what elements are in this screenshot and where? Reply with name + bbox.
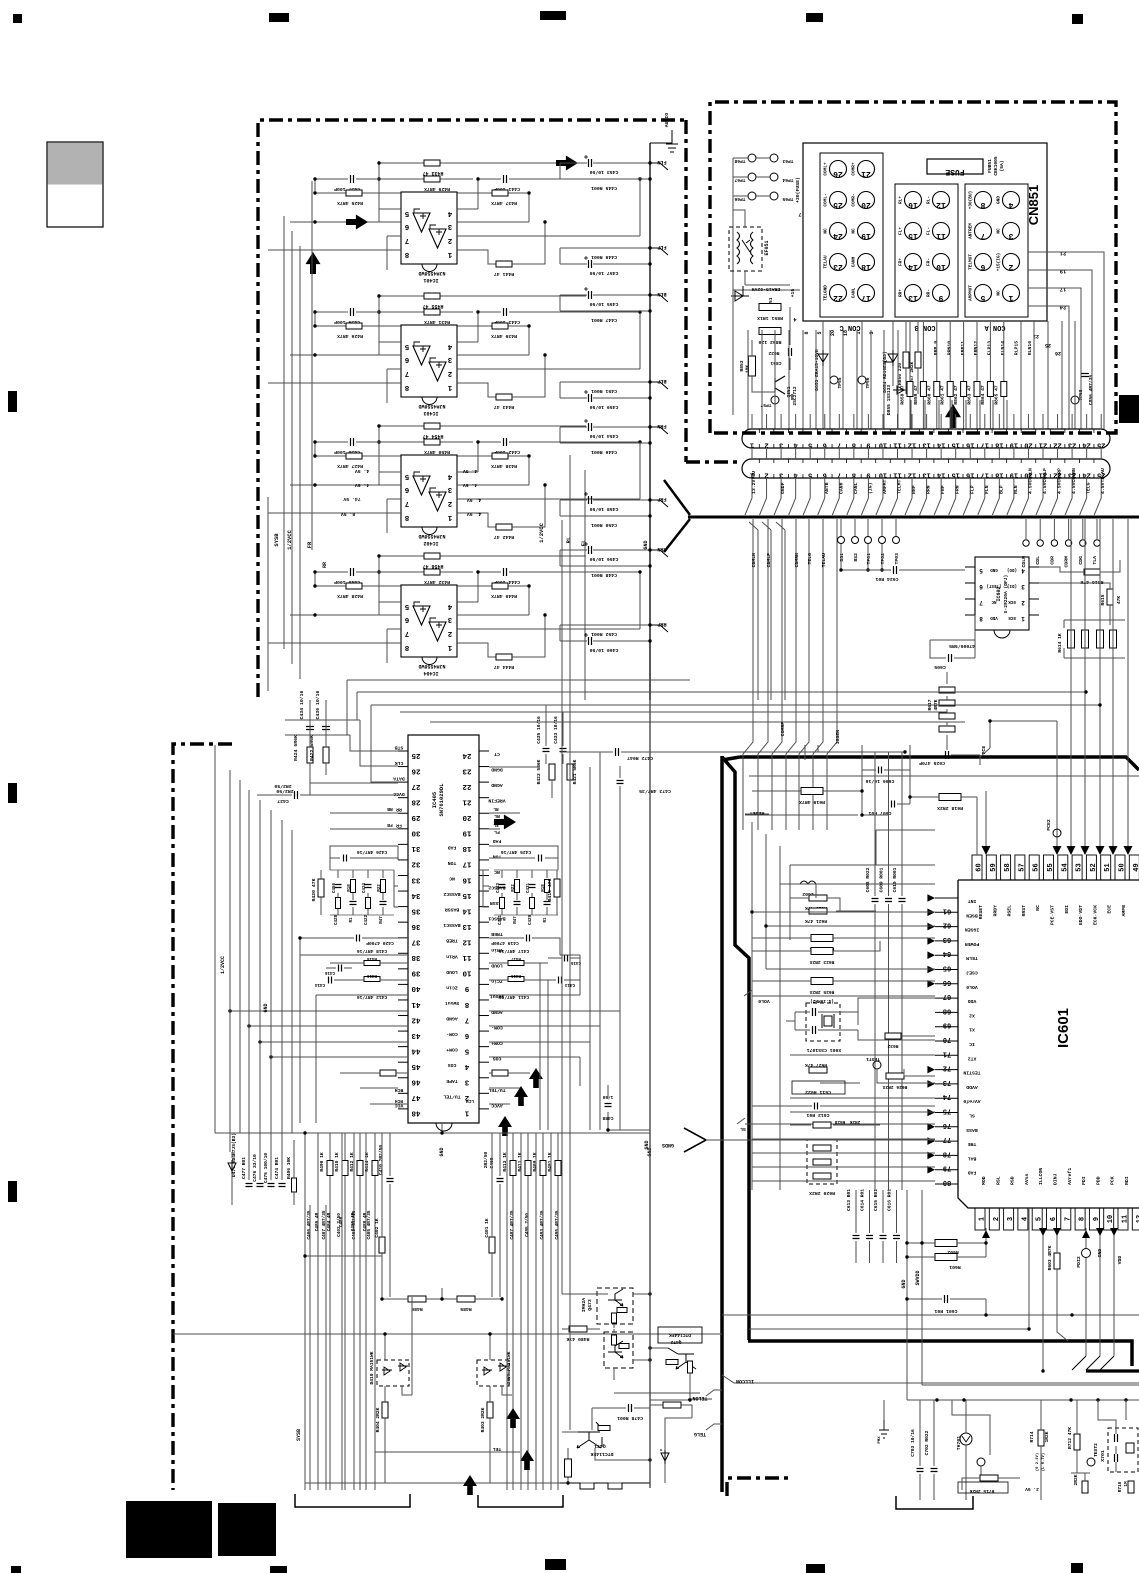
svg-text:45: 45	[411, 1062, 421, 1070]
svg-text:5: 5	[808, 441, 812, 449]
IC601 pin 78	[935, 1154, 958, 1156]
capacitor C441	[504, 175, 507, 183]
diode D854 RD16ES(B3)	[883, 350, 898, 366]
resistor R626 2R2X	[886, 1073, 904, 1079]
svg-text:R418: R418	[366, 956, 377, 960]
resistor R621 47K	[809, 908, 827, 914]
svg-text:RSD: RSD	[1010, 1176, 1016, 1185]
svg-text:TELG: TELG	[807, 553, 813, 565]
IC405 pin 31	[398, 843, 408, 845]
IC405 pin 10	[479, 968, 489, 970]
fiducial mark bottom 3	[806, 1564, 825, 1573]
capacitor C440	[351, 568, 354, 576]
resistor bottom-left of Q471	[565, 1459, 572, 1477]
svg-text:C450 R001: C450 R001	[591, 522, 617, 528]
svg-text:7: 7	[798, 211, 801, 218]
svg-text:4. 5V: 4. 5V	[467, 511, 482, 517]
svg-text:CDMLN: CDMLN	[751, 553, 757, 568]
svg-text:C456 10/50: C456 10/50	[589, 556, 618, 562]
svg-text:EDO·VDT: EDO·VDT	[1078, 905, 1084, 925]
svg-text:38: 38	[411, 953, 421, 961]
svg-text:C605: C605	[934, 664, 946, 670]
IC601 pin 66	[935, 983, 958, 985]
IC602 pin 3	[1029, 582, 1039, 584]
wires between rows	[745, 414, 752, 515]
IC405 pin 27	[398, 781, 408, 783]
op-amp triangle A IC403	[413, 346, 430, 365]
fuse FUB51	[927, 159, 983, 174]
svg-text:R441 47: R441 47	[494, 271, 514, 277]
capacitor C414	[329, 977, 332, 984]
IC405 pin 2	[479, 1092, 489, 1094]
IC601 pin 69	[935, 1026, 958, 1028]
svg-text:VDD: VDD	[968, 998, 977, 1004]
terminal TEST2	[1087, 1458, 1095, 1466]
wire R618 to pin60	[985, 791, 987, 848]
left vertical bus wires in audio block	[268, 181, 312, 691]
svg-text:4.5VCOMRP: 4.5VCOMRP	[1057, 468, 1063, 494]
svg-text:R858 47: R858 47	[900, 385, 906, 405]
op-amp triangle A IC402	[413, 476, 430, 495]
svg-text:COML-: COML-	[824, 193, 829, 206]
svg-text:RRDY: RRDY	[992, 905, 998, 917]
thick bus C	[722, 757, 1132, 1366]
svg-text:CDR: CDR	[1049, 556, 1055, 565]
svg-text:20: 20	[462, 813, 472, 821]
svg-text:47: 47	[411, 1093, 420, 1101]
fiducial mark top-left	[13, 14, 22, 23]
svg-text:78: 78	[943, 1149, 951, 1157]
svg-text:64: 64	[943, 949, 951, 957]
photo black block 1	[126, 1501, 212, 1558]
svg-text:FLP: FLP	[657, 244, 666, 250]
IC405 pin 44	[398, 1046, 408, 1048]
svg-text:NC: NC	[997, 228, 1002, 234]
wires R628 block	[752, 1125, 935, 1181]
svg-text:30: 30	[411, 829, 421, 837]
svg-text:18: 18	[995, 471, 1003, 479]
svg-text:TP66: TP66	[734, 196, 745, 202]
capacitor C478 R001	[629, 1404, 632, 1412]
svg-text:6: 6	[404, 615, 409, 623]
svg-text:9: 9	[866, 471, 870, 479]
svg-text:NC: NC	[997, 290, 1002, 296]
fiducial mark top 2	[540, 11, 566, 20]
resistor R603 4R7K	[1054, 1253, 1060, 1269]
svg-text:3: 3	[869, 331, 875, 334]
IC601 pin 73	[935, 1083, 958, 1085]
svg-text:5: 5	[817, 331, 823, 334]
svg-text:RR+: RR+	[899, 289, 904, 297]
svg-text:R486: R486	[411, 1306, 423, 1312]
svg-text:NC: NC	[449, 875, 455, 881]
svg-text:BASSC1: BASSC1	[443, 922, 460, 928]
svg-text:4: 4	[447, 472, 452, 480]
contact CON C pin 26	[830, 161, 847, 178]
svg-text:R424 5R6K: R424 5R6K	[293, 735, 299, 761]
svg-text:RRP: RRP	[911, 485, 917, 494]
svg-text:8: 8	[852, 441, 856, 449]
svg-text:8: 8	[1079, 1217, 1087, 1221]
svg-text:66: 66	[943, 978, 951, 986]
svg-text:ZCin: ZCin	[491, 978, 503, 984]
resistor R440 4R7X	[457, 586, 529, 615]
svg-text:BLP: BLP	[657, 378, 666, 384]
capacitor C444	[504, 568, 507, 576]
svg-text:X601 CSS1071: X601 CSS1071	[807, 1047, 842, 1053]
contact CON B pin 11	[933, 223, 950, 240]
contact CON C pin 23	[830, 254, 847, 271]
svg-text:R433 47: R433 47	[422, 170, 443, 176]
svg-text:3: 3	[447, 485, 452, 493]
IC601 pin 4	[1018, 1208, 1028, 1230]
net tab FRP	[650, 500, 668, 507]
svg-text:C433 10/16: C433 10/16	[553, 716, 559, 744]
svg-text:NC: NC	[852, 228, 857, 234]
svg-text:FLP13: FLP13	[987, 341, 993, 356]
svg-text:AGND: AGND	[491, 1009, 503, 1015]
svg-text:SWVDD: SWVDD	[915, 1270, 921, 1285]
IC405 pin 35	[398, 906, 408, 908]
IC602 pin 8	[965, 614, 975, 616]
svg-text:C703 10/16: C703 10/16	[910, 1429, 916, 1457]
svg-text:GND: GND	[1097, 1249, 1103, 1258]
test point TP57	[771, 396, 779, 404]
svg-text:TAPE: TAPE	[446, 1078, 458, 1084]
svg-text:12: 12	[908, 471, 916, 479]
svg-text:23: 23	[462, 766, 472, 774]
op-amp IC401 body	[401, 192, 457, 264]
svg-text:PCE2: PCE2	[1046, 819, 1052, 831]
svg-text:PDI: PDI	[1081, 1176, 1087, 1185]
IC405 pin 42	[398, 1015, 408, 1017]
svg-text:R420 47K: R420 47K	[311, 878, 317, 901]
svg-text:8: 8	[852, 471, 856, 479]
svg-text:5: 5	[1036, 1217, 1044, 1221]
svg-text:DVCC: DVCC	[393, 791, 405, 797]
svg-text:C478 R001: C478 R001	[617, 1415, 643, 1421]
svg-text:C448 R001: C448 R001	[591, 572, 617, 578]
IC405 pin 16	[479, 874, 489, 876]
resistor R424 5R6K	[307, 747, 313, 763]
wire y1385	[922, 1384, 1139, 1386]
svg-text:R627 47K: R627 47K	[805, 1062, 827, 1068]
wires IC405 right to nets	[540, 752, 620, 1130]
IC405 pin 39	[398, 968, 408, 970]
IC405 pin 33	[398, 874, 408, 876]
svg-text:R442 47: R442 47	[494, 534, 514, 540]
wire horizontal bottom-left	[173, 1256, 722, 1483]
IC601 pin 54	[1058, 855, 1068, 880]
svg-text:FAD: FAD	[493, 838, 502, 844]
svg-text:3: 3	[464, 1078, 469, 1086]
svg-text:11: 11	[1122, 1215, 1130, 1223]
svg-text:26: 26	[411, 766, 421, 774]
svg-text:AVref1: AVref1	[1067, 1168, 1073, 1185]
svg-text:3: 3	[779, 441, 783, 449]
fiducial mark bottom 2	[545, 1559, 566, 1570]
svg-text:CANH: CANH	[838, 482, 844, 494]
svg-text:2SC2712: 2SC2712	[792, 386, 798, 406]
svg-text:75: 75	[943, 1107, 951, 1115]
svg-text:10: 10	[879, 441, 887, 449]
svg-text:BASSC1: BASSC1	[488, 916, 505, 922]
svg-text:R022: R022	[768, 350, 779, 356]
contact CON B pin 15	[905, 223, 922, 240]
contact CON A pin 7	[975, 223, 992, 240]
svg-text:TELM: TELM	[966, 955, 978, 961]
IC405 pin 15	[479, 890, 489, 892]
IC602 pin 5	[965, 566, 975, 568]
IC405 pin 6	[479, 1030, 489, 1032]
svg-text:R432 4R7X: R432 4R7X	[424, 579, 450, 585]
svg-text:6: 6	[1050, 1217, 1058, 1221]
IC601 pin 60	[972, 855, 982, 880]
svg-text:C425 4R7/16: C425 4R7/16	[501, 849, 532, 855]
svg-text:(5A): (5A)	[999, 160, 1005, 171]
resistor column R617 4R7K	[939, 687, 955, 693]
resistor R444 47	[496, 654, 512, 660]
svg-text:8: 8	[464, 1000, 469, 1008]
IC405 pin 22	[479, 781, 489, 783]
output network FRN	[560, 426, 650, 428]
arrow up IC401	[306, 252, 321, 274]
inductor L602	[800, 881, 816, 884]
svg-text:55: 55	[1047, 863, 1055, 871]
svg-text:4: 4	[1008, 200, 1013, 209]
svg-text:FL: FL	[493, 822, 499, 827]
svg-text:7: 7	[980, 231, 985, 240]
capacitor C443	[504, 308, 507, 316]
svg-text:IC601: IC601	[1055, 1008, 1072, 1048]
svg-text:CDMRN: CDMRN	[794, 553, 800, 568]
svg-text:8: 8	[404, 643, 409, 651]
svg-text:C436 10/16: C436 10/16	[315, 690, 321, 719]
svg-text:CDG: CDG	[1078, 556, 1084, 565]
svg-text:24: 24	[833, 231, 843, 240]
svg-text:19: 19	[1060, 268, 1067, 275]
svg-text:C402 1K: C402 1K	[374, 1218, 380, 1238]
svg-text:C453 10/50: C453 10/50	[589, 169, 618, 175]
svg-text:5: 5	[404, 209, 409, 217]
capacitor C439	[351, 308, 354, 316]
svg-text:R431 4R7X: R431 4R7X	[424, 319, 450, 325]
svg-text:17: 17	[861, 293, 871, 302]
wires C435 cluster	[489, 705, 905, 798]
svg-text:RRST: RRST	[1021, 905, 1027, 917]
svg-text:FAD: FAD	[968, 1170, 977, 1176]
svg-text:10: 10	[936, 262, 946, 271]
resistor R861 47	[947, 382, 953, 397]
wire feedback IC401	[379, 162, 586, 164]
svg-text:+15(IG): +15(IG)	[997, 253, 1002, 271]
svg-text:ECE: ECE	[1107, 905, 1113, 914]
svg-text:XT2: XT2	[968, 1055, 977, 1061]
svg-text:D853 ERA15-10VH: D853 ERA15-10VH	[814, 349, 820, 391]
svg-text:RL: RL	[493, 806, 499, 811]
wire PCE line	[980, 721, 1057, 848]
IC601 pin 8	[1075, 1208, 1085, 1230]
svg-text:8: 8	[404, 513, 409, 521]
svg-text:TREB: TREB	[491, 931, 503, 937]
svg-text:25: 25	[833, 200, 843, 209]
resistor R423 5R6K	[549, 764, 555, 780]
thick bus B	[722, 756, 1139, 1492]
svg-text:35: 35	[411, 906, 421, 914]
svg-text:COM-: COM-	[446, 1031, 458, 1037]
arrow up TEL 1	[506, 1408, 520, 1428]
svg-text:R22: R22	[512, 884, 516, 892]
svg-text:R853: R853	[739, 360, 745, 371]
contact CON B pin 14	[905, 254, 922, 271]
svg-text:7: 7	[837, 441, 841, 449]
svg-text:D410 MA151WK: D410 MA151WK	[369, 1351, 375, 1384]
svg-text:12: 12	[936, 200, 946, 209]
contact CON A pin 5	[975, 285, 992, 302]
signal labels CDMLN group	[743, 519, 753, 830]
svg-text:6: 6	[823, 471, 827, 479]
capacitor C611 R022	[792, 1081, 845, 1094]
svg-text:FRN: FRN	[657, 423, 666, 429]
svg-text:C473 4R7/35: C473 4R7/35	[639, 788, 671, 794]
svg-text:R456 47: R456 47	[422, 563, 443, 569]
test point TP58	[1071, 396, 1079, 404]
svg-text:63: 63	[943, 935, 951, 943]
svg-text:13: 13	[922, 441, 930, 449]
svg-text:R865 47: R865 47	[993, 385, 999, 405]
IC601 pin 50	[1115, 855, 1125, 880]
svg-text:R443 47: R443 47	[494, 404, 514, 410]
wire right vertical IC402	[639, 442, 641, 499]
svg-text:19: 19	[861, 231, 871, 240]
svg-text:R619 4R7X: R619 4R7X	[799, 799, 825, 805]
svg-text:C614 R01: C614 R01	[860, 1189, 866, 1211]
wire right vertical IC404	[639, 572, 641, 629]
svg-text:CANH: CANH	[852, 256, 857, 267]
svg-text:24: 24	[462, 751, 472, 759]
svg-text:32: 32	[411, 860, 421, 868]
contact CON C pin 25	[830, 192, 847, 209]
bracket bottom-right	[896, 1496, 973, 1509]
svg-text:BS1: BS1	[839, 553, 845, 562]
CN851 vertical wires down to connector	[747, 330, 749, 429]
svg-text:18: 18	[995, 441, 1003, 449]
svg-text:CDLM: CDLM	[1021, 556, 1027, 568]
output network BLP	[560, 381, 650, 383]
IC601 pin 10	[1104, 1208, 1114, 1230]
wires to IC601 top pins	[1070, 519, 1072, 848]
resistor R421 5R6K	[567, 764, 573, 780]
svg-text:23: 23	[833, 262, 843, 271]
castellated connector edge	[560, 1483, 650, 1489]
svg-text:AGND: AGND	[446, 1016, 458, 1022]
resistor R438 4R7X	[457, 456, 529, 485]
resistor R853 10K	[749, 356, 756, 376]
svg-text:PMX: PMX	[878, 1436, 882, 1444]
svg-text:C446 R001: C446 R001	[591, 449, 617, 455]
svg-text:SL: SL	[969, 1113, 975, 1119]
svg-text:1: 1	[464, 1109, 469, 1117]
thick bus A horizontal y517	[688, 516, 1139, 519]
arrow output FLN	[556, 156, 578, 171]
contact CON A pin 4	[1003, 192, 1020, 209]
resistor R856 220	[903, 352, 909, 368]
svg-text:FRN12: FRN12	[973, 341, 979, 356]
svg-text:18: 18	[861, 262, 871, 271]
svg-text:28: 28	[411, 797, 421, 805]
svg-text:R851 1R1X: R851 1R1X	[757, 315, 783, 321]
IC601 pin 3	[1004, 1208, 1014, 1230]
svg-text:VRin: VRin	[446, 953, 458, 959]
IC405 pin 37	[398, 937, 408, 939]
svg-text:C450: C450	[333, 882, 337, 893]
transistor Q472 DTC144EK	[658, 1327, 702, 1343]
svg-text:R22: R22	[378, 884, 382, 892]
contact CON B pin 10	[933, 254, 950, 271]
svg-text:C624 R01: C624 R01	[875, 576, 898, 582]
svg-text:RLN16: RLN16	[1027, 341, 1033, 356]
contact CON A pin 8	[975, 192, 992, 209]
svg-text:4. 5V: 4. 5V	[463, 468, 478, 474]
IC601 pin 70	[935, 1040, 958, 1042]
svg-text:TH701: TH701	[956, 1436, 962, 1451]
svg-text:41: 41	[411, 1000, 421, 1008]
svg-text:VREFIN: VREFIN	[488, 798, 505, 804]
svg-text:25: 25	[1097, 441, 1105, 449]
IC405 pin 23	[479, 766, 489, 768]
capacitor C625 470P	[946, 751, 949, 759]
IC601 pin 58	[1001, 855, 1011, 880]
IC405 pin 41	[398, 999, 408, 1001]
resistor R851 1R1X	[759, 304, 781, 311]
svg-text:7: 7	[837, 471, 841, 479]
resistor R618 2R2X	[939, 794, 961, 801]
svg-text:FRP: FRP	[657, 496, 666, 502]
IC405 pin 3	[479, 1077, 489, 1079]
svg-text:3: 3	[1008, 231, 1013, 240]
svg-text:NJM4558WD: NJM4558WD	[418, 533, 445, 539]
contact CON B pin 12	[933, 192, 950, 209]
wire y1329	[749, 1208, 1029, 1329]
output network RRP	[560, 624, 650, 626]
svg-text:RR: RR	[396, 807, 402, 813]
svg-text:(IG): (IG)	[867, 482, 873, 494]
resistor R403 2R2K	[487, 1402, 493, 1418]
IC601 pin 68	[935, 1011, 958, 1013]
CON A right side wires 21 19 17 24	[1028, 252, 1104, 429]
connector group CON A	[965, 184, 1028, 317]
svg-text:+15: +15	[790, 289, 796, 298]
svg-text:4. 5V: 4. 5V	[355, 468, 370, 474]
svg-text:RL: RL	[565, 536, 572, 543]
svg-text:47000/5R5: 47000/5R5	[949, 643, 975, 649]
svg-text:IC: IC	[969, 1041, 975, 1047]
svg-text:3: 3	[447, 615, 452, 623]
svg-text:IC402: IC402	[423, 540, 438, 546]
svg-text:TEST1: TEST1	[866, 1056, 880, 1062]
svg-text:RRP 9: RRP 9	[933, 341, 939, 356]
svg-text:GNDP: GNDP	[780, 482, 786, 494]
svg-text:R491 1K: R491 1K	[547, 1152, 553, 1172]
svg-text:C401 1K: C401 1K	[484, 1218, 490, 1238]
svg-text:TELMT: TELMT	[897, 479, 903, 494]
svg-text:FLN: FLN	[657, 159, 666, 165]
svg-text:R629 2R2X: R629 2R2X	[809, 1190, 835, 1196]
svg-text:13: 13	[922, 471, 930, 479]
IC601 pin 71	[935, 1054, 958, 1056]
svg-text:20: 20	[830, 330, 836, 336]
svg-text:48: 48	[411, 1109, 421, 1117]
